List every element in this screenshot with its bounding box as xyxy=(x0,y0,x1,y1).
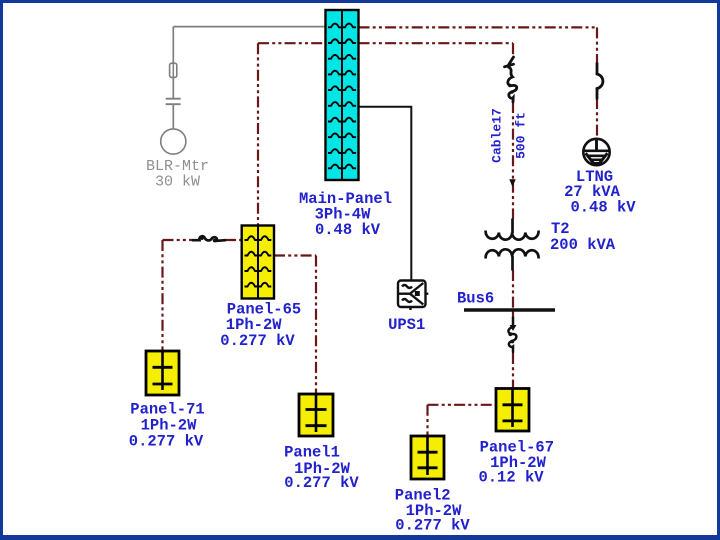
svg-text:0.277 kV: 0.277 kV xyxy=(129,433,204,451)
contact (two bars) on BLR-Mtr branch xyxy=(166,99,181,105)
wire red Panel-67 left to Panel2 xyxy=(428,405,497,436)
panel Panel-67 xyxy=(496,389,529,432)
fuse (black) on Panel-65 left feeder xyxy=(193,236,225,241)
svg-text:30 kW: 30 kW xyxy=(155,173,200,190)
transformer T2 xyxy=(486,219,539,271)
arrow on cable feeder xyxy=(509,179,515,187)
wire gray BLR-Mtr branch xyxy=(173,27,325,129)
wire red Panel-65 right to Panel1 xyxy=(274,256,316,394)
panel Main-Panel xyxy=(326,10,359,180)
wire black Main-Panel to UPS1 xyxy=(359,107,412,280)
panel Panel-65 xyxy=(242,226,274,299)
load LTNG symbol xyxy=(583,139,609,165)
wire red Panel-65 left to Panel-71 xyxy=(163,240,242,351)
svg-text:0.48 kV: 0.48 kV xyxy=(315,221,381,239)
svg-text:0.12 kV: 0.12 kV xyxy=(478,469,544,487)
fuse (gray) on BLR-Mtr branch xyxy=(170,63,177,77)
panel Panel1 xyxy=(299,394,333,436)
fuse (black squiggle) on cable feeder xyxy=(505,57,517,102)
svg-text:200 kVA: 200 kVA xyxy=(550,236,616,254)
svg-text:500 ft: 500 ft xyxy=(514,112,529,159)
panel Panel2 xyxy=(411,436,444,479)
svg-text:0.277 kV: 0.277 kV xyxy=(395,517,470,535)
svg-text:Panel1: Panel1 xyxy=(284,444,340,462)
svg-text:0.277 kV: 0.277 kV xyxy=(220,332,295,350)
wire red to Panel-65 xyxy=(257,43,259,225)
svg-text:Cable17: Cable17 xyxy=(490,108,505,163)
svg-text:Bus6: Bus6 xyxy=(457,290,494,308)
motor BLR-Mtr circle xyxy=(161,129,186,154)
ups UPS1 symbol xyxy=(398,280,428,310)
wire red L1 to LTNG xyxy=(359,27,598,139)
panel Panel-71 xyxy=(146,351,179,395)
bus Bus6 xyxy=(464,308,555,311)
fuse with arrow below Bus6 xyxy=(508,318,516,353)
wire red L2 to cable xyxy=(258,43,513,388)
switch arc near LTNG xyxy=(597,64,603,99)
svg-text:0.277 kV: 0.277 kV xyxy=(284,474,359,492)
svg-text:UPS1: UPS1 xyxy=(388,316,425,334)
svg-text:0.48 kV: 0.48 kV xyxy=(570,199,636,217)
